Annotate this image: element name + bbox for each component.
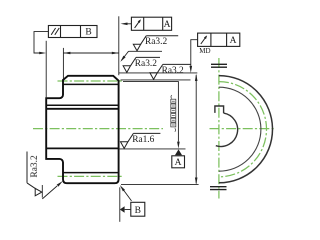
leader of runout frame A	[127, 23, 132, 25]
pitch line top (section)	[58, 80, 124, 82]
note (inner diameter) vertical text	[171, 99, 176, 103]
side view horizontal center line	[210, 128, 275, 130]
surface roughness Ra3.2 (rotated, bottom left)	[41, 185, 43, 198]
tooth root line bottom	[63, 172, 119, 174]
surface roughness Ra1.6	[121, 142, 128, 149]
bore diameter dimension (bent)	[123, 82, 178, 142]
tip diameter dimension line	[195, 75, 197, 184]
keyway line	[46, 104, 118, 106]
feature control frame: parallelism | B	[48, 26, 97, 38]
svg-text:A: A	[230, 36, 237, 46]
datum feature symbol B	[120, 206, 125, 213]
extension line below right face	[119, 187, 121, 222]
side view vertical center line	[218, 58, 220, 199]
pitch line bottom (section)	[58, 175, 124, 177]
datum feature symbol A	[175, 149, 182, 155]
svg-text:A: A	[175, 158, 182, 168]
tooth root line top	[63, 83, 119, 85]
extension line bottom right	[121, 184, 199, 186]
extension shelf line lower	[121, 79, 191, 81]
tooth marks top	[211, 63, 227, 65]
svg-text:B: B	[135, 206, 141, 216]
side view root circle	[219, 87, 261, 171]
svg-text:B: B	[85, 28, 91, 38]
svg-text:Ra1.6: Ra1.6	[132, 135, 154, 145]
feature control frame: circular runout | A	[131, 17, 171, 30]
extension line hub left face	[45, 41, 47, 98]
surface roughness Ra3.2 (top, with leader)	[129, 50, 163, 52]
extension shelf line upper	[119, 72, 198, 74]
surface roughness Ra3.2 (third)	[150, 73, 157, 80]
svg-text:A: A	[164, 20, 171, 30]
side view bore circle with keyway	[216, 113, 238, 146]
svg-text:MD: MD	[199, 47, 210, 55]
bore top line	[46, 108, 118, 110]
surface roughness Ra3.2 (second)	[123, 66, 130, 73]
leader of parallelism frame	[34, 32, 48, 53]
leader arrow to bottom-right corner	[123, 190, 131, 201]
leader arrow to bottom-left fillet	[42, 186, 57, 199]
leader of MD frame	[191, 40, 198, 67]
side view tip circle	[219, 76, 273, 183]
extension line right face (top)	[118, 16, 120, 75]
svg-text:Ra3.2: Ra3.2	[162, 66, 184, 76]
svg-text:Ra3.2: Ra3.2	[145, 37, 167, 47]
axis center line (main section view)	[33, 128, 163, 130]
extension line rim left face	[62, 48, 64, 79]
svg-text:Ra3.2: Ra3.2	[30, 155, 40, 177]
bore bottom line	[46, 147, 118, 149]
svg-text:Ra3.2: Ra3.2	[135, 59, 157, 69]
face width dimension line	[63, 52, 118, 54]
side view pitch circle	[219, 82, 267, 177]
tooth marks bottom	[210, 186, 227, 188]
gear blank outer outline (section view)	[46, 76, 118, 183]
extension line bore bottom	[119, 148, 186, 150]
feature control frame: circular runout | A (MD)	[198, 33, 240, 46]
